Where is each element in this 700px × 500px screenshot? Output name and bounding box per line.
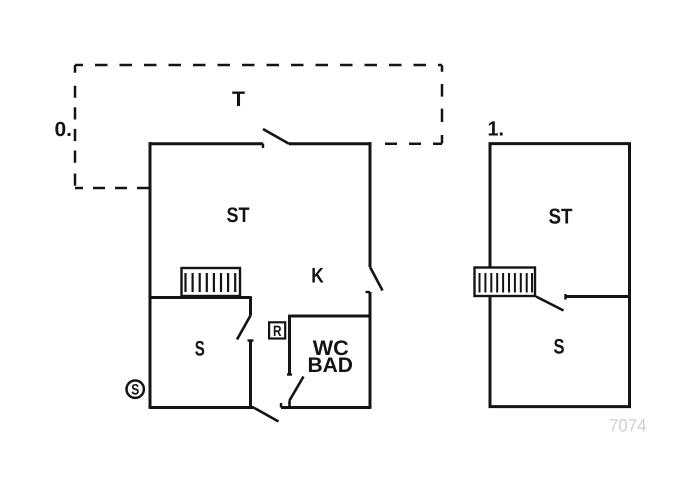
stairs first floor: [475, 268, 536, 297]
wall end tick on S room wall top: [248, 339, 254, 341]
terrace dashed outline top side: [75, 64, 442, 67]
svg-text:S: S: [131, 382, 139, 399]
terrace dashed outline bottom-left segment: [75, 187, 149, 190]
wall ground floor: right with door gap: [369, 142, 372, 409]
svg-text:R: R: [273, 323, 282, 340]
door terrace (top wall leaf): [263, 129, 289, 144]
wall interior: ST/S divider with corner stub: [150, 296, 251, 315]
wall end tick first floor divider: [564, 294, 566, 300]
door kitchen east (right wall leaf): [370, 267, 383, 291]
terrace dashed outline right side: [441, 65, 444, 143]
wall end tick at WC wall bottom: [287, 373, 292, 375]
wall end tick at top door gap: [262, 144, 264, 149]
svg-text:BAD: BAD: [307, 354, 353, 377]
wall ground floor: top with door gap: [150, 142, 371, 145]
svg-text:S: S: [195, 337, 205, 360]
wall end tick at right door gap: [366, 291, 371, 293]
svg-text:0.: 0.: [55, 118, 73, 141]
svg-text:ST: ST: [549, 205, 573, 229]
door entrance (bottom wall leaf): [254, 408, 279, 422]
wall first floor: outline: [490, 144, 630, 407]
wall ground floor: bottom with door gap: [150, 406, 370, 409]
stairs ground floor: [182, 268, 241, 296]
wall interior first floor: ST/S divider: [566, 295, 630, 298]
door first floor leaf: [536, 297, 564, 311]
svg-text:K: K: [311, 265, 324, 288]
symbol S in circle (sauna/spa marker): [127, 381, 144, 399]
door WC leaf with hinge stub: [290, 377, 304, 407]
wall ground floor: left: [149, 142, 152, 409]
svg-text:ST: ST: [227, 204, 250, 227]
label R (radiator) box: [269, 322, 285, 340]
wall interior: WC/BAD top: [290, 315, 371, 318]
terrace dashed outline left side: [74, 65, 77, 186]
door S room leaf: [237, 316, 251, 340]
svg-text:1.: 1.: [488, 118, 505, 141]
svg-text:7074: 7074: [609, 416, 647, 436]
svg-text:T: T: [232, 88, 245, 111]
wall end tick at bottom door gap: [280, 403, 282, 408]
wall interior: S room right wall lower part: [249, 341, 252, 408]
terrace dashed outline bottom-right segment: [373, 143, 442, 146]
svg-text:S: S: [554, 336, 565, 359]
wall interior: WC/BAD left: [288, 315, 291, 375]
